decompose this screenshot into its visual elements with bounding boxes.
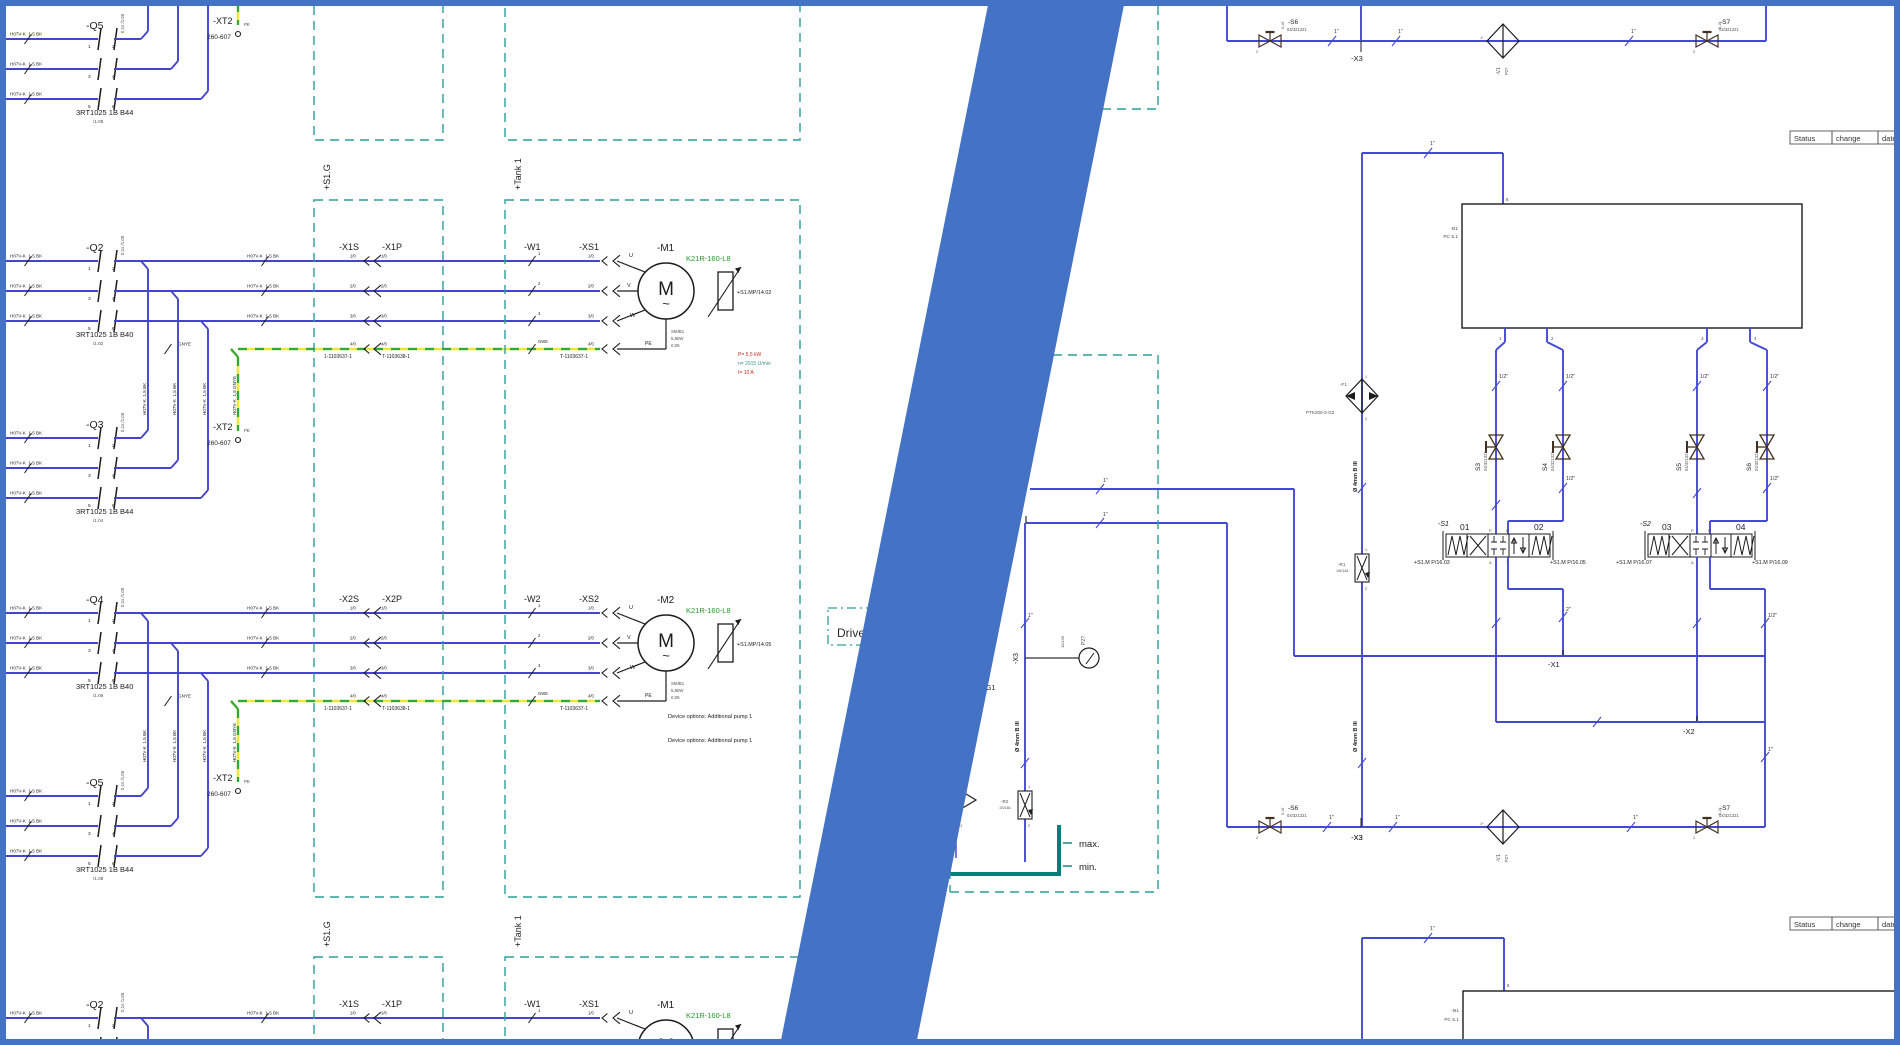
pump symbol G1 [956,685,995,858]
wire bottom rail T-line [1227,826,1765,828]
svg-text:-V1: -V1 [1496,854,1502,862]
svg-text:01: 01 [1460,522,1470,532]
svg-text:S6: S6 [1746,463,1753,471]
svg-text:1": 1" [1103,512,1108,518]
svg-text:-X2: -X2 [1683,727,1695,736]
svg-text:1/2": 1/2" [1770,374,1779,380]
valve S3 [1475,435,1503,471]
svg-text:-S2: -S2 [1640,521,1651,528]
svg-text:1/2": 1/2" [1768,613,1777,619]
svg-text:11/139: 11/139 [1060,635,1065,648]
svg-text:change: change [1836,134,1861,143]
svg-text:04/321321: 04/321321 [1287,27,1307,32]
valve S4 [1542,435,1570,471]
svg-text:2: 2 [1693,836,1695,840]
svg-text:1": 1" [1103,478,1108,484]
directional valve 01,02 [1443,531,1553,560]
svg-text:1": 1" [1768,747,1773,753]
wire pump feed line [1362,141,1509,827]
svg-text:S3: S3 [1475,463,1482,471]
svg-text:1*: 1* [1480,822,1484,826]
wire valve1 B-port to -X1 [1508,557,1571,656]
svg-text:1/2": 1/2" [1700,374,1709,380]
table status/change/date [1790,131,1900,144]
wire valve2 B-port down [1710,557,1777,827]
svg-text:+S1.M P/16.09: +S1.M P/16.09 [1752,560,1788,566]
junction -X3 bottom [1351,818,1362,842]
svg-text:0,16: 0,16 [1718,808,1722,815]
svg-text:04: 04 [1736,522,1746,532]
svg-text:1: 1 [1365,375,1367,379]
left schematic tile (bottom copy) [6,915,800,1045]
svg-text:-V1: -V1 [1496,67,1502,75]
svg-text:1/2": 1/2" [1566,476,1575,482]
svg-text:P: P [1691,528,1694,533]
svg-text:Ø 4mm B III: Ø 4mm B III [1015,721,1021,752]
svg-text:-X1: -X1 [1548,660,1560,669]
wire drop line 2 (pin 2) [1508,328,1575,534]
svg-text:B: B [1506,528,1509,533]
svg-text:03: 03 [1662,522,1672,532]
table status/change/date [1790,917,1900,930]
svg-text:04/321321: 04/321321 [1483,451,1488,471]
svg-text:1*: 1* [1480,36,1484,40]
svg-text:1": 1" [1329,815,1334,821]
svg-text:1S/181: 1S/181 [999,806,1011,810]
wire drop line 3 (pin 3) [1693,328,1709,534]
svg-text:1": 1" [1398,29,1403,35]
svg-text:1": 1" [1631,29,1636,35]
svg-text:1": 1" [1633,815,1638,821]
svg-text:max.: max. [1079,839,1100,850]
svg-text:1": 1" [1395,815,1400,821]
svg-text:+S1.M P/16.03: +S1.M P/16.03 [1414,560,1450,566]
svg-text:+S1.M P/16.07: +S1.M P/16.07 [1616,560,1652,566]
diagonal blue band [780,0,1125,1045]
svg-text:Status: Status [1794,134,1816,143]
svg-text:A: A [1691,560,1694,565]
wire bus -X1 [1294,655,1765,657]
svg-text:Ø 4mm B III: Ø 4mm B III [1353,721,1359,752]
left schematic tile (top copy) [6,0,800,140]
svg-text:min.: min. [1079,862,1097,873]
valve -S6 [1256,805,1307,840]
svg-text:2: 2 [1256,836,1258,840]
wire return upper (to -X1) [1030,478,1294,656]
valve S5 [1676,435,1704,471]
restrictor -R2 [999,785,1033,828]
svg-text:1": 1" [1334,29,1339,35]
svg-text:2: 2 [1256,50,1258,54]
svg-text:Ø 4mm B III: Ø 4mm B III [1353,461,1359,492]
svg-text:1/8/181: 1/8/181 [1336,569,1349,573]
valve -S7 [1693,805,1739,840]
svg-text:PTK200-2-G2: PTK200-2-G2 [1306,410,1335,415]
label box Drive [828,608,980,645]
svg-text:0,16: 0,16 [1718,22,1722,29]
junction -X3 top [1351,6,1363,63]
junction -X1 [1548,650,1563,669]
wire drop line 4 (pin 4) [1710,328,1779,534]
svg-text:1": 1" [1028,613,1033,619]
svg-text:04/321321: 04/321321 [1287,813,1307,818]
svg-text:S5: S5 [1676,463,1683,471]
svg-text:04/321321: 04/321321 [1719,813,1739,818]
svg-text:S4: S4 [1542,463,1549,471]
wire gauge branch [1013,523,1079,862]
wire return lower (-X2 to rail) [1026,512,1227,827]
svg-text:Status: Status [1794,920,1816,929]
svg-text:0,16: 0,16 [1281,808,1285,815]
svg-text:P2?: P2? [1504,854,1509,862]
filter -V1 top [1480,24,1519,75]
enclosure tank dashed box [950,6,1158,892]
filter -V1 bottom [1480,810,1519,862]
svg-text:+S1.M P/16.05: +S1.M P/16.05 [1550,560,1586,566]
directional valve 03,04 [1645,531,1755,560]
svg-text:04/321321: 04/321321 [1684,451,1689,471]
left schematic tile (middle copy) [6,158,800,897]
svg-text:1/2": 1/2" [1566,374,1575,380]
svg-text:1: 1 [1028,785,1030,789]
svg-text:2: 2 [1365,417,1367,421]
wire valve2 A-port down [1693,557,1701,722]
svg-text:P2?: P2? [1504,67,1509,75]
filter -F1 with arrows [1306,375,1378,421]
valve -S6 [1256,19,1307,54]
wire valve1 A-port down [1492,557,1500,722]
power unit PC 5.1 [1443,204,1802,328]
tank level max/min indicator [905,825,1100,874]
svg-text:1/2": 1/2" [1499,374,1508,380]
svg-text:1": 1" [1430,926,1435,932]
svg-text:P: P [1489,528,1492,533]
svg-text:2: 2 [1365,587,1367,591]
svg-text:1": 1" [1430,141,1435,147]
svg-text:change: change [1836,920,1861,929]
junction -X3 bottom feed [1351,818,1363,842]
valve S6 [1746,435,1774,471]
wire drop line 1 (pin 1) [1492,328,1508,534]
svg-text:2": 2" [1566,607,1571,613]
junction -X2 left [1011,507,1026,523]
svg-text:-F1: -F1 [1340,382,1347,387]
svg-text:-S6: -S6 [1288,805,1299,812]
svg-text:-R2: -R2 [1001,799,1009,804]
valve -S7 [1693,19,1739,54]
junction -X2 [1683,716,1697,736]
svg-text:02: 02 [1534,522,1544,532]
svg-text:Drive: Drive [837,626,865,640]
svg-text:1: 1 [1365,548,1367,552]
svg-text:-X3: -X3 [1351,833,1362,842]
svg-text:PC 5.1: PC 5.1 [1443,234,1458,240]
svg-text:-S1: -S1 [1438,521,1449,528]
wire top rail P-line [1227,6,1766,41]
svg-text:-X3: -X3 [1013,653,1020,664]
svg-text:-S6: -S6 [1288,19,1299,26]
svg-text:PC 5.1: PC 5.1 [1444,1017,1459,1023]
svg-text:04/321321: 04/321321 [1719,27,1739,32]
svg-text:-R1: -R1 [1338,562,1346,567]
svg-text:04/321321: 04/321321 [1754,451,1759,471]
restrictor -R1 [1336,548,1370,591]
svg-text:-B1: -B1 [1452,1008,1460,1014]
svg-text:P2?: P2? [1081,636,1087,645]
svg-text:B: B [1708,528,1711,533]
svg-text:-B1: -B1 [1451,226,1459,232]
power unit PC 5.1 (next sheet) [1444,991,1896,1045]
pressure gauge P2 [1060,635,1099,668]
svg-text:2: 2 [1693,50,1695,54]
svg-text:1/2": 1/2" [1770,476,1779,482]
wire bus -X2 [1496,717,1765,727]
svg-text:04/321321: 04/321321 [1550,451,1555,471]
wire pump feed line (next sheet) [1362,926,1510,1045]
svg-text:-X3: -X3 [1351,54,1363,63]
svg-text:0,16: 0,16 [1281,22,1285,29]
svg-text:A: A [1489,560,1492,565]
svg-text:2: 2 [1028,824,1030,828]
